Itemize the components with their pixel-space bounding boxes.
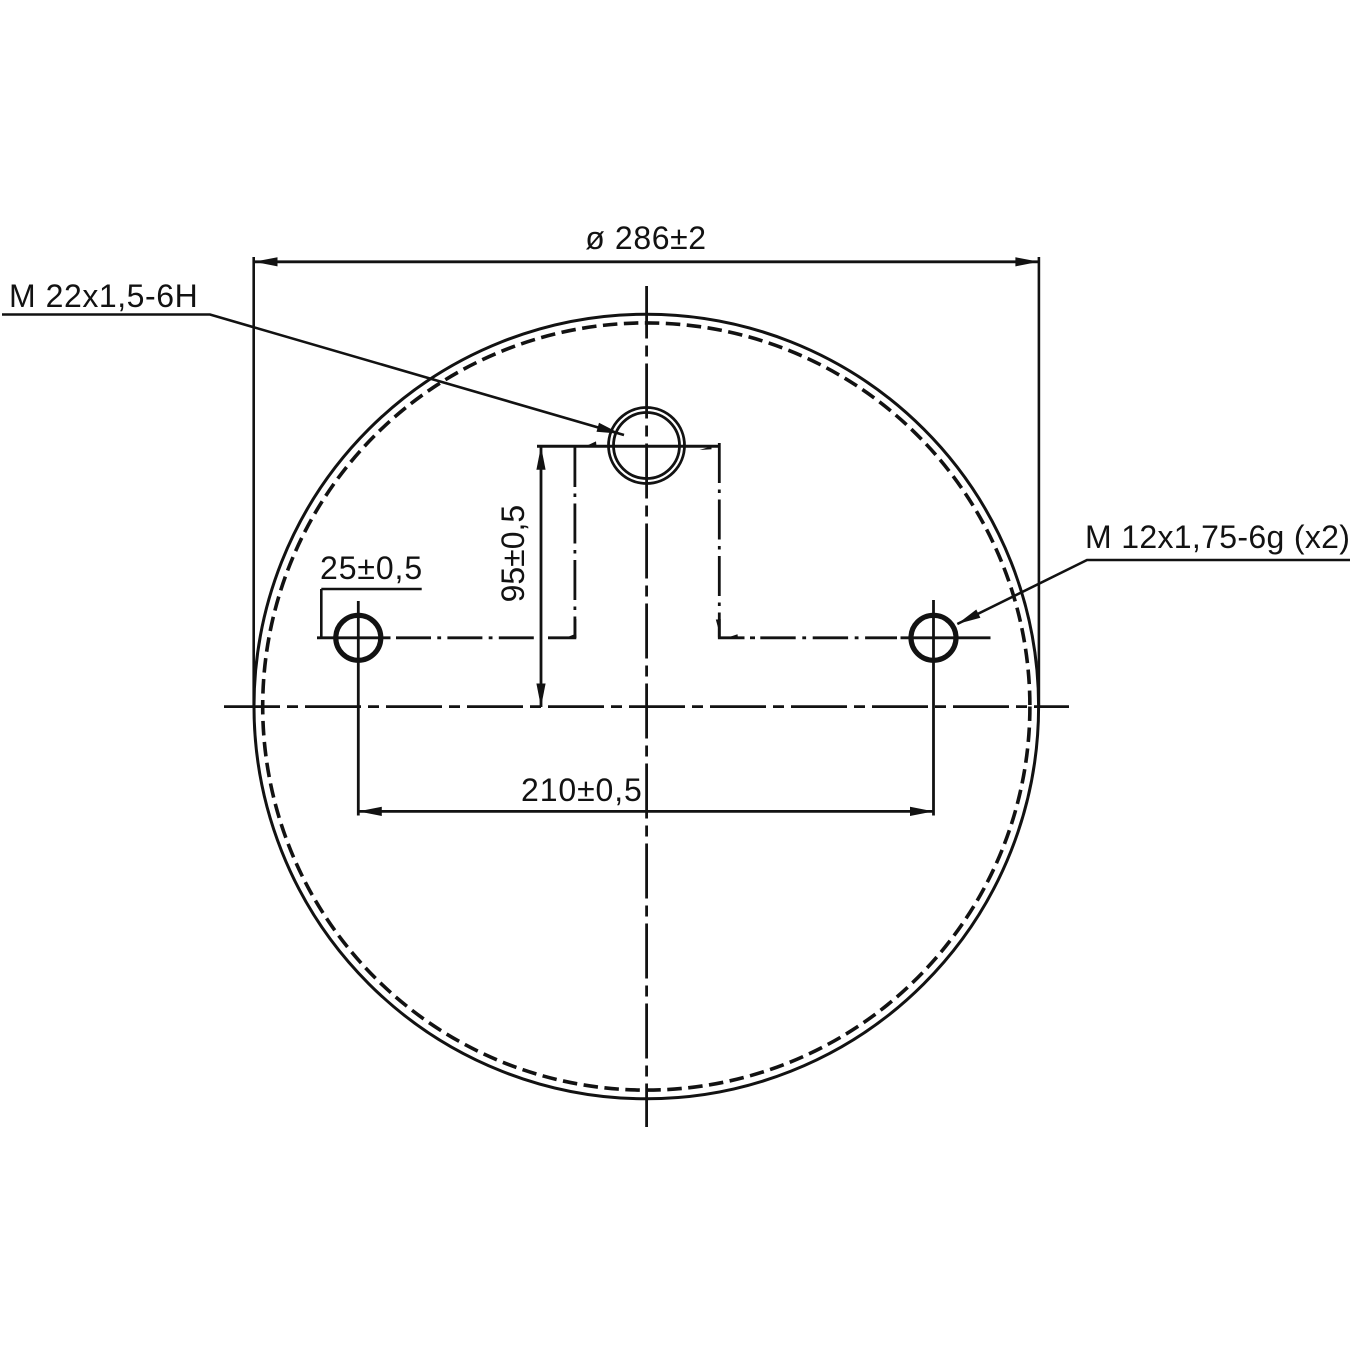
diameter dimension right extension line bbox=[1038, 257, 1041, 707]
tick at T top line right corner bbox=[700, 446, 712, 450]
svg-text:ø 286±2: ø 286±2 bbox=[585, 220, 706, 256]
outer plate circle (solid) bbox=[254, 314, 1039, 1099]
horizontal centerline bbox=[224, 705, 1069, 708]
svg-text:210±0,5: 210±0,5 bbox=[521, 772, 643, 808]
diameter dimension left extension line bbox=[252, 257, 255, 707]
svg-text:M 22x1,5-6H: M 22x1,5-6H bbox=[9, 278, 198, 314]
tick on right T vertical near corner bbox=[716, 620, 718, 628]
M22 label leader line bbox=[2, 315, 624, 436]
95 dim top arrowhead bbox=[536, 446, 545, 470]
T profile right corner wedge bbox=[727, 634, 739, 638]
M12 label leader line bbox=[957, 560, 1350, 624]
bead contour circle (dashed) bbox=[263, 323, 1030, 1090]
right hole vertical extension line bbox=[932, 600, 935, 816]
T profile right corner bbox=[719, 619, 744, 639]
210 dim right arrowhead bbox=[910, 807, 934, 816]
vertical centerline bbox=[645, 286, 648, 1127]
M22 leader arrowhead bbox=[597, 423, 621, 434]
210 dim left arrowhead bbox=[358, 807, 382, 816]
left hole vertical extension line bbox=[357, 601, 360, 816]
hole axis dot left of right corner bbox=[750, 636, 755, 639]
T profile top line bbox=[537, 445, 719, 448]
95 dim bottom arrowhead bbox=[536, 684, 545, 708]
svg-text:M 12x1,75-6g (x2): M 12x1,75-6g (x2) bbox=[1085, 519, 1350, 555]
T profile left corner bbox=[548, 619, 576, 639]
25 dimension drop line bbox=[320, 589, 323, 638]
210 dimension line bbox=[358, 810, 933, 813]
right hole M12 ring bbox=[911, 615, 956, 660]
M12 leader arrowhead bbox=[957, 610, 980, 625]
svg-text:25±0,5: 25±0,5 bbox=[320, 550, 423, 586]
T profile left corner wedge bbox=[566, 634, 577, 638]
center hole M22 outer circle bbox=[609, 408, 685, 484]
95 dimension line bbox=[540, 446, 543, 707]
T profile right vertical (dash-dot) bbox=[718, 443, 721, 638]
hole axis solid segment through right hole bbox=[901, 636, 991, 639]
diameter dimension line bbox=[254, 260, 1039, 263]
25 dimension shelf line bbox=[321, 588, 421, 591]
hole axis dash-dot segment right of T profile bbox=[760, 636, 897, 639]
T profile left vertical (dash-dot) bbox=[574, 447, 577, 638]
tick at T top line left bbox=[586, 441, 597, 446]
hole axis solid segment through left hole bbox=[317, 636, 391, 639]
diameter dim right arrowhead bbox=[1015, 257, 1039, 266]
hole axis dash-dot segment left of T profile bbox=[396, 636, 535, 639]
center hole M22 inner circle bbox=[614, 413, 680, 479]
left hole M12 ring bbox=[336, 615, 381, 660]
diameter dim left arrowhead bbox=[254, 257, 278, 266]
svg-text:95±0,5: 95±0,5 bbox=[495, 505, 531, 603]
